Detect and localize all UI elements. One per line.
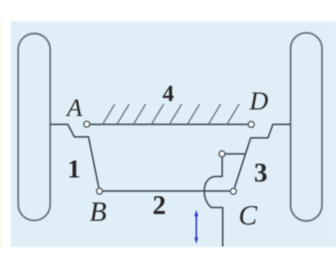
label C	[240, 206, 257, 225]
blue motion arrow	[194, 210, 198, 244]
link 3 right knuckle	[233, 124, 290, 191]
label 2	[154, 196, 165, 214]
pin E drag link	[219, 151, 225, 157]
label D	[249, 92, 268, 109]
label 3	[255, 164, 267, 182]
drag link with crossover arc	[204, 157, 222, 247]
link 1 left knuckle	[50, 124, 99, 191]
pin B	[97, 188, 103, 194]
label 1	[70, 160, 80, 177]
right wheel	[291, 33, 322, 221]
left page edge tint	[0, 21, 2, 247]
left wheel	[18, 34, 50, 221]
steering arm	[222, 153, 246, 155]
pin D	[248, 121, 254, 127]
pin C	[230, 188, 236, 194]
pin joints	[84, 121, 254, 194]
pin A	[84, 121, 90, 127]
hatching on frame	[102, 104, 239, 125]
link 2 tie rod BC	[100, 190, 234, 192]
label A	[66, 100, 83, 117]
link 4 frame AD	[87, 123, 251, 125]
label B	[90, 202, 106, 220]
label 4	[163, 86, 174, 101]
